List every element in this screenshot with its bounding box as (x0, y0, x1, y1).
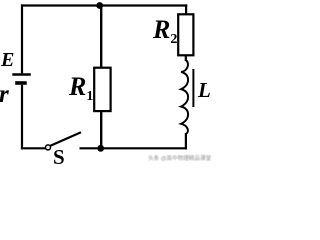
node bottom junction (97, 145, 104, 152)
label R1 (69, 74, 92, 104)
label L (198, 80, 211, 101)
wire bottom right (junction to right corner) (101, 147, 187, 149)
wire R1 branch upper (100, 6, 102, 69)
watermark (148, 154, 211, 162)
resistor R1 body (94, 68, 110, 111)
node top junction (96, 2, 103, 9)
battery E,r long plate (12, 73, 31, 75)
wire top horizontal (21, 4, 187, 6)
inductor L core line (192, 69, 194, 107)
wire inductor to bottom corner (185, 133, 187, 149)
wire R1 branch lower (100, 111, 102, 148)
label r (internal resistance) (0, 82, 9, 107)
wire left upper (top corner to battery) (21, 4, 23, 73)
label S (switch) (53, 147, 65, 168)
label E (emf) (1, 50, 14, 70)
label R2 (153, 17, 176, 47)
wire left lower (battery to bottom corner) (21, 85, 23, 150)
battery E,r short plate (15, 81, 27, 85)
wire bottom left (corner to switch) (21, 147, 46, 149)
wire R2 to inductor (185, 55, 187, 61)
switch S blade (50, 132, 81, 145)
switch S pivot circle (46, 145, 51, 150)
wire switch stub to junction (80, 147, 101, 149)
wire right branch top (corner to R2) (185, 4, 187, 14)
inductor L coil (181, 60, 188, 134)
resistor R2 body (178, 14, 193, 55)
